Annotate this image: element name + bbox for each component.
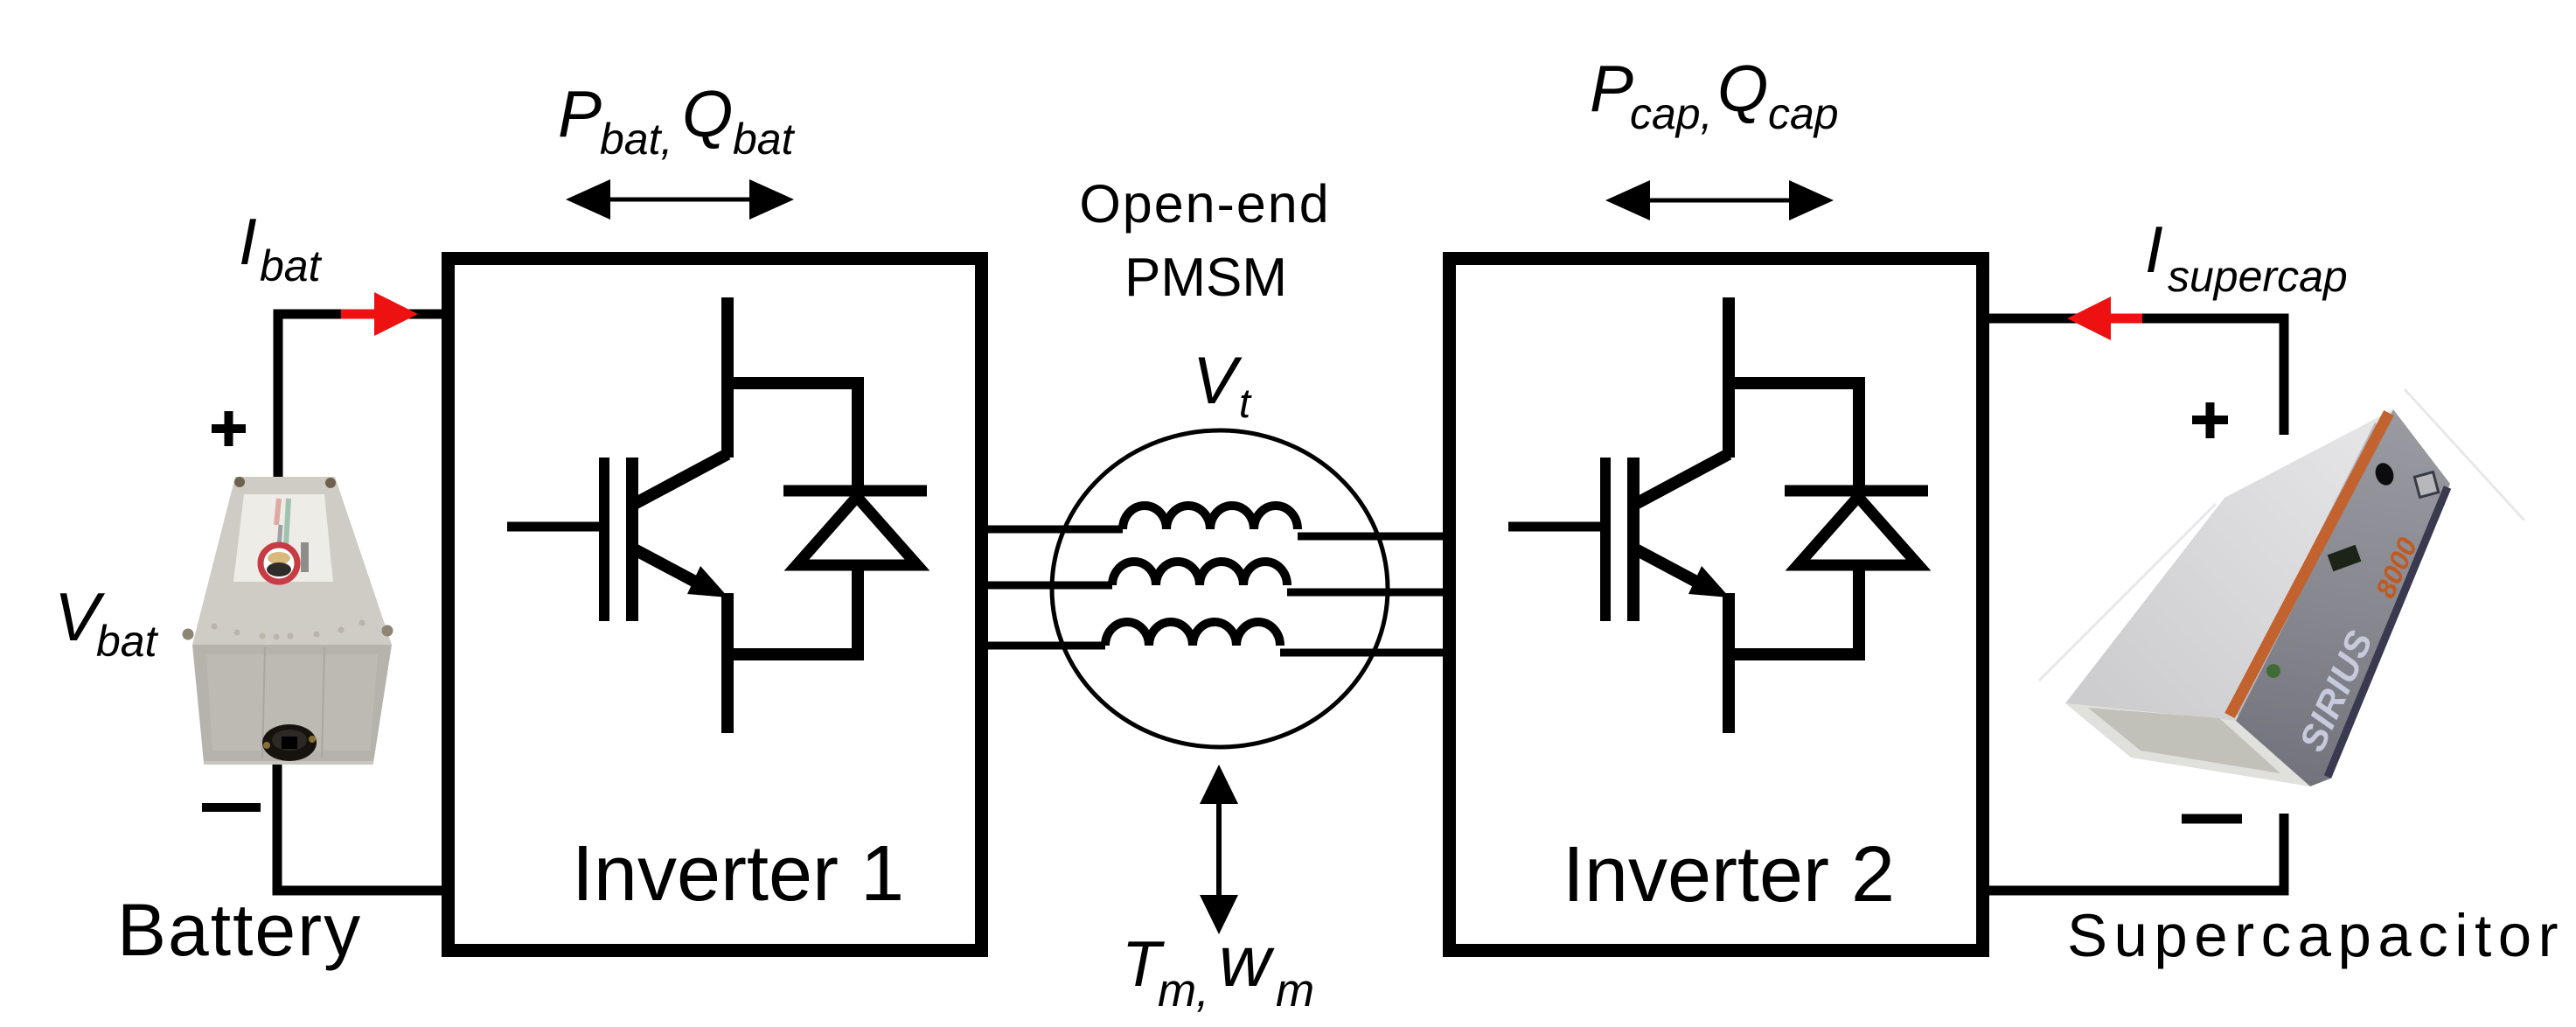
svg-text:Q: Q xyxy=(682,77,733,150)
current arrow I_bat (red) xyxy=(341,292,418,336)
winding phase C xyxy=(1105,622,1280,646)
svg-text:bat,: bat, xyxy=(600,115,672,164)
svg-text:Supercapacitor: Supercapacitor xyxy=(2067,902,2565,969)
winding phase B xyxy=(1112,562,1287,585)
IGBT Q1 xyxy=(507,297,728,733)
Q1 collector lead xyxy=(721,297,734,458)
Q2 emitter arrowhead xyxy=(1688,566,1730,597)
wire phase A motor to inverter 2 xyxy=(1298,533,1443,541)
inverter 2 box xyxy=(1450,259,1983,951)
node + (battery positive) xyxy=(212,411,246,446)
inverter 1 box xyxy=(449,259,982,951)
svg-text:Q: Q xyxy=(1717,52,1768,125)
wire Q1 collector to diode D1 xyxy=(722,377,858,495)
battery photo xyxy=(183,477,393,763)
svg-text:m: m xyxy=(1276,965,1314,1017)
label V_t xyxy=(1193,344,1252,426)
Q2 gate bar xyxy=(1600,458,1611,621)
wire diode D1 to Q1 emitter xyxy=(722,560,864,660)
arrow torque bidirectional xyxy=(1200,765,1238,934)
label Open-end PMSM xyxy=(1079,174,1330,308)
label I_bat xyxy=(239,205,323,290)
svg-text:Open-end: Open-end xyxy=(1079,174,1330,234)
wire battery positive terminal to Inverter 1 xyxy=(278,314,442,482)
Q2 collector slant xyxy=(1631,454,1729,507)
Q2 body bar xyxy=(1627,458,1640,621)
svg-text:Inverter 1: Inverter 1 xyxy=(572,830,904,918)
winding phase A xyxy=(1123,506,1298,529)
wire supercapacitor negative to inverter 2 xyxy=(1989,814,2284,891)
wire phase B motor to inverter 2 xyxy=(1287,589,1443,597)
wire phase C inverter 1 to motor xyxy=(988,642,1105,650)
Q1 gate lead xyxy=(507,522,609,532)
Q1 emitter lead xyxy=(721,593,734,733)
diode D1 cathode bar xyxy=(783,486,927,497)
node - (battery negative) xyxy=(202,803,261,812)
svg-text:I: I xyxy=(2145,213,2163,286)
Q2 gate lead xyxy=(1508,522,1611,532)
svg-text:cap,: cap, xyxy=(1630,89,1713,138)
wire battery negative terminal to Inverter 1 xyxy=(277,758,442,891)
svg-text:Battery: Battery xyxy=(117,889,362,971)
label P_bat, Q_bat xyxy=(558,77,796,164)
Q2 emitter slant xyxy=(1631,547,1711,590)
Q1 body bar xyxy=(626,458,638,621)
wire phase C motor to inverter 2 xyxy=(1280,649,1443,657)
svg-text:Inverter 2: Inverter 2 xyxy=(1563,831,1895,919)
svg-text:I: I xyxy=(239,205,257,278)
Q2 emitter lead xyxy=(1723,593,1735,733)
svg-text:t: t xyxy=(1239,380,1252,426)
svg-text:bat: bat xyxy=(733,115,796,164)
label I_supercap xyxy=(2145,213,2348,301)
Q1 emitter arrowhead xyxy=(687,566,728,597)
arrow P_cap bidirectional xyxy=(1605,180,1834,220)
svg-text:bat: bat xyxy=(260,241,323,290)
svg-text:supercap: supercap xyxy=(2168,252,2348,301)
Q1 gate bar xyxy=(599,458,609,621)
node - (supercapacitor negative) xyxy=(2182,814,2242,824)
Q1 emitter slant xyxy=(630,547,710,590)
svg-text:m,: m, xyxy=(1158,965,1209,1017)
motor M1 body circle xyxy=(1052,430,1388,747)
wire phase A inverter 1 to motor xyxy=(988,526,1123,534)
diode D1 triangle xyxy=(797,497,917,565)
supercapacitor photo xyxy=(2039,389,2524,786)
svg-text:w: w xyxy=(1219,922,1275,1002)
svg-text:PMSM: PMSM xyxy=(1124,248,1287,308)
label V_bat xyxy=(54,578,159,666)
wire Q2 collector to diode D2 xyxy=(1723,377,1859,495)
IGBT Q2 xyxy=(1508,297,1729,733)
label P_cap, Q_cap xyxy=(1590,52,1839,138)
current arrow I_supercap (red) xyxy=(2067,297,2142,340)
Q1 collector slant xyxy=(630,454,728,507)
label T_m, w_m xyxy=(1122,922,1314,1017)
wire phase B inverter 1 to motor xyxy=(988,582,1112,590)
svg-text:bat: bat xyxy=(96,617,159,666)
svg-text:cap: cap xyxy=(1768,89,1839,138)
arrow P_bat bidirectional xyxy=(566,179,794,220)
node + (supercapacitor positive) xyxy=(2192,402,2228,438)
svg-text:P: P xyxy=(558,77,602,150)
Q2 collector lead xyxy=(1723,297,1735,458)
svg-text:V: V xyxy=(1193,344,1243,418)
diode D2 cathode bar xyxy=(1785,486,1928,497)
wire supercapacitor positive to inverter 2 xyxy=(1989,318,2284,435)
wire diode D2 to Q2 emitter xyxy=(1723,560,1865,660)
diode D2 triangle xyxy=(1798,497,1918,565)
svg-text:P: P xyxy=(1590,52,1633,125)
